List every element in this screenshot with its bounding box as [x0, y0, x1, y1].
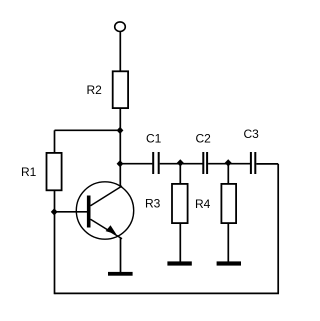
wire (R2 to collector) [119, 109, 121, 187]
capacitor C1 [153, 152, 159, 174]
svg-text:R4: R4 [195, 197, 211, 211]
node (base junction) [51, 208, 58, 215]
node (R2/base junction) [117, 127, 124, 134]
resistor R4 [221, 184, 236, 223]
resistor R3 [172, 184, 188, 223]
ground (R4) [217, 261, 241, 265]
wire (junction to left) [55, 129, 121, 131]
svg-text:C2: C2 [196, 132, 212, 146]
wire (C1 to C2) [160, 163, 204, 165]
node (collector/rail junction) [117, 160, 124, 167]
node (C2/C3 junction, R4 tap) [225, 159, 232, 166]
svg-text:C3: C3 [244, 127, 260, 141]
capacitor C3 [251, 152, 255, 174]
wire (R4 tap down) [227, 164, 229, 184]
wire (R3 to ground) [179, 223, 181, 262]
svg-text:R2: R2 [87, 83, 103, 97]
terminal (supply) [115, 22, 126, 32]
wire (R1 down left side to bottom rail) [54, 191, 56, 294]
resistor R2 [113, 71, 128, 108]
svg-text:C1: C1 [146, 132, 162, 146]
wire (base) [55, 211, 88, 213]
wire (rail to C1) [120, 163, 152, 165]
node (C1/C2 junction, R3 tap) [177, 159, 184, 166]
resistor R1 [47, 153, 62, 190]
wire (C3 to right edge) [256, 163, 278, 165]
capacitor C2 [203, 152, 207, 174]
wire (emitter down) [120, 238, 122, 272]
ground (emitter) [108, 272, 133, 276]
svg-text:R3: R3 [145, 197, 161, 211]
wire (terminal to R2) [119, 32, 121, 71]
svg-text:R1: R1 [21, 165, 37, 179]
wire (down to R1) [54, 130, 56, 152]
wire (right side down) [277, 164, 279, 294]
ground (R3) [167, 261, 191, 265]
transistor Q1 [76, 182, 133, 239]
wire (C2 to C3) [208, 163, 251, 165]
wire (R3 tap down) [179, 164, 181, 184]
wire (bottom rail) [55, 292, 280, 294]
wire (R4 to ground) [227, 223, 229, 262]
